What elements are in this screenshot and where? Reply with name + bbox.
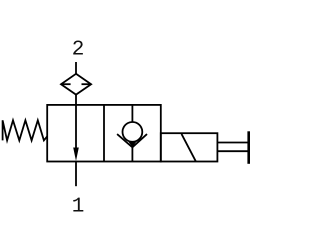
check valve seat V	[117, 134, 147, 147]
quick coupling diamond (port 2 connector)	[61, 74, 91, 95]
wire diamond to valve body	[75, 95, 77, 105]
svg-text:2: 2	[72, 39, 85, 62]
check valve arrowhead	[128, 142, 136, 147]
actuator box	[161, 133, 218, 161]
check valve ball	[122, 122, 142, 142]
check valve drain line (lower)	[131, 147, 133, 161]
flow path line in left cell	[75, 105, 77, 149]
return spring	[3, 120, 48, 140]
flow path arrowhead	[73, 148, 79, 162]
plunger rod upper line	[217, 142, 247, 144]
valve body envelope (2 positions)	[47, 105, 161, 162]
svg-text:1: 1	[72, 195, 85, 218]
wire to port 1	[75, 162, 77, 187]
plunger rod lower line	[217, 150, 247, 152]
check valve feed line (upper)	[131, 105, 133, 122]
wire from port 2 to diamond	[75, 62, 77, 74]
position divider	[103, 105, 105, 162]
plunger end plate	[247, 131, 250, 164]
actuator diagonal	[182, 134, 196, 161]
